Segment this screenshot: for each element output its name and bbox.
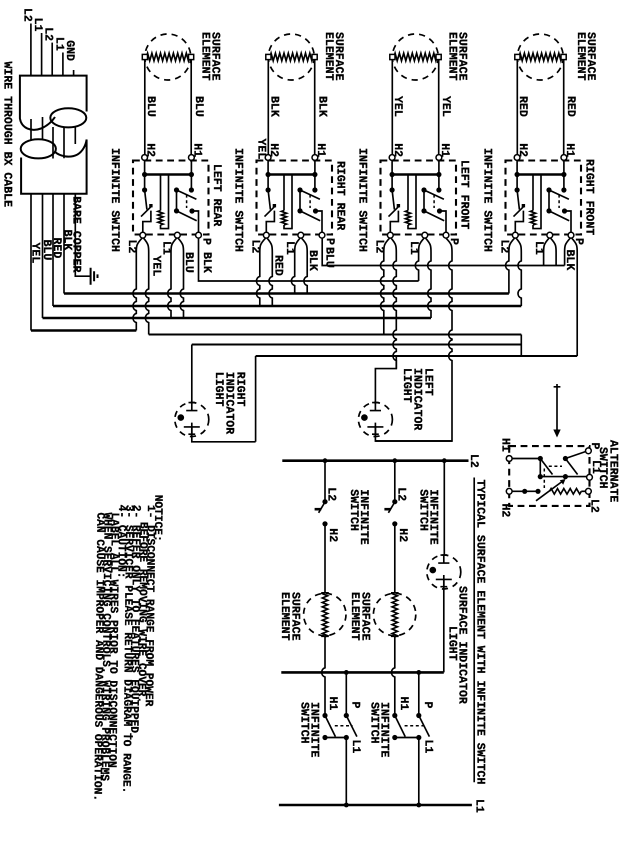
junction line 672 (281, 671, 444, 674)
svg-text:BLK: BLK (200, 252, 213, 273)
svg-text:YEL: YEL (391, 96, 404, 117)
alt switch internals (512, 458, 540, 460)
U4 L2 teardrop wires (506, 238, 515, 293)
bus h2 RED (52, 194, 54, 306)
svg-text:INFINITE: INFINITE (378, 702, 391, 758)
svg-text:LEFT FRONT: LEFT FRONT (457, 160, 470, 229)
bottom switch 1 (H1/P/L1) (345, 672, 347, 715)
cable link ellipse right (50, 108, 86, 127)
cable link ellipse left (21, 139, 56, 158)
svg-text:YEL: YEL (439, 96, 452, 117)
surface indicator light drop (443, 461, 445, 556)
typical surface element 1 (304, 593, 346, 635)
U3 L1 teardrop wires (415, 238, 424, 281)
svg-text:BLK: BLK (306, 250, 319, 271)
svg-text:RIGHT FRONT: RIGHT FRONT (582, 159, 595, 235)
svg-text:INFINITE: INFINITE (427, 489, 440, 545)
svg-text:SURFACE: SURFACE (584, 32, 597, 81)
svg-text:RIGHT REAR: RIGHT REAR (333, 161, 346, 230)
svg-text:H1: H1 (326, 697, 339, 711)
svg-text:H2: H2 (396, 528, 409, 542)
svg-text:INFINITE: INFINITE (308, 702, 321, 758)
svg-text:YEL: YEL (254, 139, 267, 160)
U2 L2 teardrop wires (RED) (257, 238, 266, 306)
svg-text:SURFACE: SURFACE (456, 32, 469, 81)
pilot line hP from U1-P (199, 238, 419, 281)
left indicator light (358, 403, 392, 437)
svg-text:TYPICAL SURFACE ELEMENT WITH I: TYPICAL SURFACE ELEMENT WITH INFINITE SW… (474, 480, 487, 785)
U3 L2 teardrop wires (381, 238, 390, 334)
h5/h7/h6 junction drop (520, 335, 522, 357)
svg-text:BLK: BLK (267, 96, 280, 117)
bare copper wire + ground (75, 194, 90, 276)
arrow (554, 384, 561, 431)
bus h1 BLK (63, 194, 65, 294)
svg-text:SURFACE: SURFACE (358, 592, 371, 641)
svg-text:SURFACE: SURFACE (289, 592, 302, 641)
svg-text:L1: L1 (421, 740, 434, 754)
svg-text:H2: H2 (499, 504, 512, 518)
U4 L1 teardrop wires (544, 238, 549, 265)
L2 rail (282, 459, 468, 462)
surface element + infinite switch RIGHT REAR (U2) (231, 34, 335, 255)
element2 lower wire with hop (392, 637, 395, 716)
cable knot wires upper (31, 117, 43, 141)
U2 L1 teardrop wires (BLK) (291, 238, 300, 293)
svg-text:SURFACE: SURFACE (209, 32, 222, 81)
surface element + infinite switch LEFT REAR (U1) (108, 34, 213, 255)
L1 rail (279, 804, 472, 807)
svg-text:LEFT REAR: LEFT REAR (210, 164, 223, 226)
svg-text:BLK: BLK (563, 250, 576, 271)
svg-text:BLU: BLU (192, 96, 205, 117)
svg-text:RIGHT: RIGHT (234, 372, 247, 407)
svg-text:SURFACE INDICATOR: SURFACE INDICATOR (456, 586, 469, 704)
bus h3 BLU (42, 194, 44, 318)
svg-text:BLK: BLK (61, 230, 74, 251)
svg-text:YEL: YEL (149, 256, 162, 277)
svg-text:WIRE THROUGH BX CABLE: WIRE THROUGH BX CABLE (1, 62, 14, 208)
cable lower body (21, 140, 87, 194)
svg-text:P: P (349, 702, 362, 709)
NOTICE block (90, 494, 163, 802)
svg-text:BLU: BLU (144, 96, 157, 117)
surface element + infinite switch LEFT FRONT (U3) (355, 34, 460, 255)
right indicator light (175, 403, 209, 437)
U3 P wire to left indicator light (375, 238, 452, 441)
svg-text:L2: L2 (394, 487, 407, 501)
U1 L2 teardrop wires (YEL) (133, 238, 142, 330)
BX cable body (armored cable symbol) (20, 76, 87, 130)
svg-text:L2: L2 (467, 454, 480, 468)
element1 lower wire with hop (322, 637, 325, 716)
svg-text:RED: RED (272, 255, 285, 276)
typical switch 1 (L2/H2) (324, 461, 326, 500)
svg-text:L2: L2 (325, 487, 338, 501)
svg-text:BLU: BLU (323, 247, 336, 268)
section title (473, 478, 475, 783)
svg-text:RED: RED (516, 96, 529, 117)
surface element + infinite switch RIGHT FRONT (U4) (480, 34, 585, 255)
svg-text:H1: H1 (397, 697, 410, 711)
line hA from U2-P (322, 238, 564, 265)
line h7 right pilot (192, 344, 522, 346)
svg-text:H1: H1 (499, 438, 512, 452)
svg-text:L1: L1 (473, 799, 486, 813)
svg-text:LEFT: LEFT (422, 368, 435, 396)
svg-text:INFINITE: INFINITE (357, 489, 370, 545)
line h5 (149, 334, 522, 336)
svg-text:L2: L2 (587, 499, 600, 513)
svg-text:RED: RED (564, 96, 577, 117)
svg-text:ALTERNATE: ALTERNATE (606, 440, 619, 502)
cable knot wires lower (53, 127, 75, 159)
svg-text:BLK: BLK (316, 96, 329, 117)
U1 L1 teardrop wires (BLU) (168, 238, 177, 318)
ground symbol (91, 268, 98, 285)
svg-text:L1: L1 (349, 740, 362, 754)
svg-text:H2: H2 (326, 528, 339, 542)
svg-text:SURFACE: SURFACE (332, 32, 345, 81)
typical surface element 2 (373, 593, 415, 635)
svg-text:GND: GND (63, 40, 76, 61)
U4 P teardrop wires (BLK) (565, 238, 571, 265)
typical switch 2 (394, 461, 396, 500)
svg-text:BLU: BLU (182, 252, 195, 273)
alternate switch box (509, 446, 589, 506)
bus h4 YEL (30, 194, 32, 331)
svg-text:P: P (421, 702, 434, 709)
bottom switch 2 (418, 672, 420, 715)
line h6 (256, 355, 578, 357)
